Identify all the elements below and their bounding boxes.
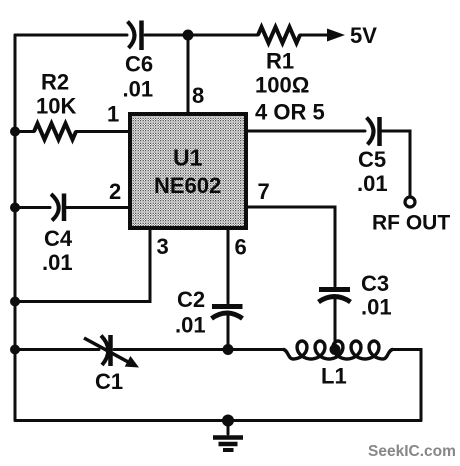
svg-text:100Ω: 100Ω <box>255 73 309 98</box>
svg-text:.01: .01 <box>42 250 73 275</box>
svg-text:U1: U1 <box>173 145 203 171</box>
svg-text:5V: 5V <box>350 23 377 48</box>
svg-text:C5: C5 <box>358 147 386 172</box>
svg-text:RF OUT: RF OUT <box>372 212 450 235</box>
svg-text:8: 8 <box>192 83 204 108</box>
svg-text:C2: C2 <box>177 287 205 312</box>
svg-text:NE602: NE602 <box>154 173 221 198</box>
svg-text:.01: .01 <box>357 171 388 196</box>
svg-text:R1: R1 <box>266 49 294 74</box>
svg-text:C4: C4 <box>44 226 73 251</box>
svg-text:.01: .01 <box>123 77 154 102</box>
svg-text:.01: .01 <box>361 295 392 320</box>
svg-text:L1: L1 <box>321 364 347 389</box>
svg-text:4 OR 5: 4 OR 5 <box>255 100 325 125</box>
svg-text:6: 6 <box>235 235 247 260</box>
svg-text:7: 7 <box>258 179 270 204</box>
svg-text:10K: 10K <box>36 94 76 119</box>
svg-text:C3: C3 <box>361 271 389 296</box>
svg-text:3: 3 <box>157 234 169 259</box>
svg-text:2: 2 <box>109 179 121 204</box>
svg-text:SeekIC.com: SeekIC.com <box>368 443 456 460</box>
svg-text:C6: C6 <box>125 52 153 77</box>
svg-text:R2: R2 <box>41 70 69 95</box>
svg-text:1: 1 <box>107 102 119 127</box>
svg-text:.01: .01 <box>175 313 206 338</box>
svg-text:C1: C1 <box>95 369 123 394</box>
